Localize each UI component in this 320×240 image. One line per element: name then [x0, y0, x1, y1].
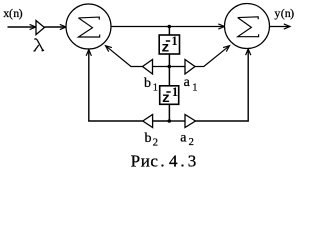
wire Z1 to node N2	[168, 54, 170, 67]
wire N2 to delay Z2	[168, 67, 170, 86]
caption Рис.4.3	[131, 151, 197, 170]
wire N3 to b2 triangle	[153, 120, 170, 122]
svg-text:b: b	[145, 131, 152, 146]
label z^-1 of Z2	[162, 85, 178, 107]
wire N2 to b1 triangle	[153, 66, 170, 68]
svg-text:2: 2	[153, 138, 158, 149]
label a2	[180, 131, 194, 149]
wire lambda to summer U1	[44, 24, 66, 29]
svg-text:.: .	[160, 151, 164, 170]
label y(n)	[274, 6, 294, 20]
svg-text:4: 4	[169, 151, 178, 170]
wire b1 to U1 feedback with arrow	[106, 46, 143, 67]
U2 sigma glyph	[238, 17, 259, 37]
label x(n)	[3, 6, 22, 20]
label a1	[184, 75, 198, 94]
svg-text:a: a	[180, 131, 187, 146]
wire a2 to U2 bottom with arrow	[196, 49, 251, 121]
coefficient a1 triangle	[185, 60, 195, 75]
coefficient a2 triangle	[185, 115, 196, 128]
label lambda	[34, 39, 45, 51]
wire input arrow into lambda	[8, 24, 36, 29]
wire N1 to delay Z1	[168, 27, 170, 36]
coefficient b2 triangle	[143, 115, 153, 128]
wire a1 to U2 with arrow	[195, 46, 230, 67]
svg-text:с: с	[150, 151, 158, 170]
svg-text:2: 2	[189, 137, 194, 148]
wire N3 to a2 triangle	[169, 120, 185, 122]
wire top U1 to U2	[111, 24, 225, 29]
label b1	[144, 76, 158, 94]
node N1 junction dot	[168, 25, 172, 29]
svg-text:b: b	[144, 76, 151, 91]
node N3 junction dot	[168, 119, 172, 123]
svg-text:y: y	[274, 6, 280, 20]
label b2	[145, 131, 159, 149]
svg-text:1: 1	[153, 83, 158, 94]
summer U2 (right adder circle)	[225, 4, 270, 49]
svg-text:1: 1	[192, 83, 197, 94]
wire b2 to U1 bottom feedback with arrow	[86, 50, 143, 121]
label z^-1 of Z1	[161, 34, 177, 56]
svg-text:a: a	[184, 75, 191, 90]
svg-text:1: 1	[171, 34, 177, 48]
gain triangle lambda	[36, 21, 44, 35]
svg-text:1: 1	[172, 85, 178, 99]
svg-text:Р: Р	[131, 151, 140, 170]
wire Z2 to node N3	[168, 104, 170, 121]
summer U1 (left adder circle)	[66, 4, 111, 49]
wire output arrow	[270, 24, 291, 29]
svg-text:3: 3	[188, 151, 197, 170]
svg-text:): )	[290, 6, 294, 20]
coefficient b1 triangle	[143, 60, 153, 75]
svg-text:и: и	[141, 151, 150, 170]
U1 sigma glyph	[78, 17, 99, 37]
svg-text:): )	[19, 6, 23, 20]
svg-text:.: .	[180, 151, 184, 170]
wire N2 to a1 triangle	[169, 66, 185, 68]
node N2 junction dot	[168, 65, 172, 69]
delay block Z2	[160, 86, 179, 105]
svg-text:z: z	[161, 40, 169, 56]
delay block Z1	[159, 35, 179, 54]
